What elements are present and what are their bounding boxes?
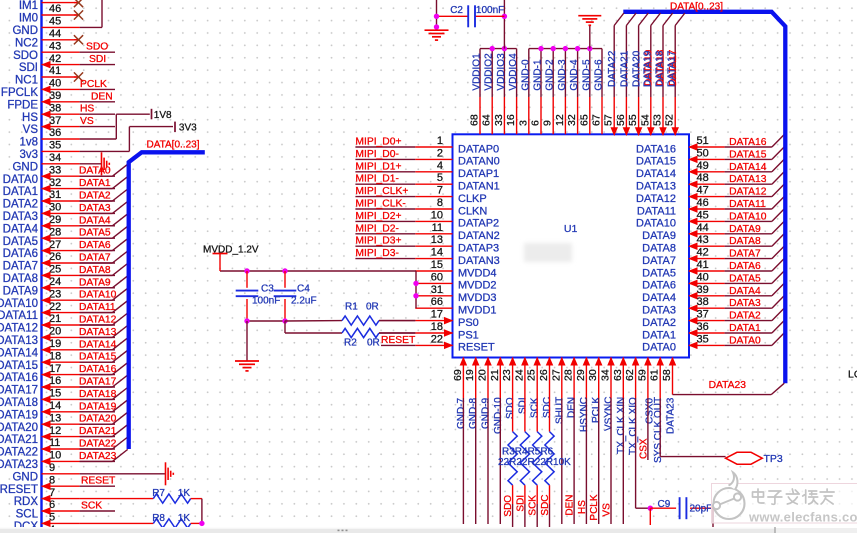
svg-text:0R: 0R	[367, 338, 380, 349]
svg-text:CLKN: CLKN	[458, 205, 487, 217]
svg-text:DATA7: DATA7	[3, 261, 38, 273]
svg-text:10: 10	[49, 450, 61, 462]
svg-text:SDC: SDC	[542, 397, 553, 418]
svg-text:37: 37	[697, 309, 709, 321]
svg-text:45: 45	[49, 16, 61, 28]
svg-text:24: 24	[49, 276, 61, 288]
svg-text:DATA8: DATA8	[642, 243, 676, 255]
svg-text:DATA4: DATA4	[729, 286, 761, 297]
svg-text:DATA0: DATA0	[3, 174, 38, 186]
svg-text:2: 2	[437, 147, 443, 159]
svg-text:DATA3: DATA3	[642, 305, 676, 317]
svg-text:12: 12	[554, 114, 566, 126]
svg-text:VSYNC: VSYNC	[604, 397, 615, 431]
svg-text:25: 25	[49, 264, 61, 276]
svg-text:MIPI_D0+: MIPI_D0+	[355, 137, 401, 148]
svg-text:SDC: SDC	[540, 494, 551, 515]
svg-text:1V8: 1V8	[154, 110, 172, 121]
svg-text:44: 44	[49, 28, 61, 40]
svg-text:5: 5	[437, 172, 443, 184]
svg-text:DATA19: DATA19	[0, 409, 38, 421]
svg-text:MVDD1: MVDD1	[458, 305, 497, 317]
svg-text:DATA12: DATA12	[0, 323, 38, 335]
svg-text:C4: C4	[297, 283, 310, 294]
svg-text:GND-6: GND-6	[594, 59, 605, 91]
svg-text:19: 19	[49, 338, 61, 350]
svg-text:20: 20	[477, 369, 489, 381]
svg-text:52: 52	[664, 114, 676, 126]
svg-text:DATA7: DATA7	[79, 253, 111, 264]
svg-text:DEN: DEN	[565, 494, 576, 515]
svg-text:GND-10: GND-10	[493, 397, 504, 434]
svg-text:www.elecfans.com: www.elecfans.com	[748, 510, 857, 525]
svg-text:VS: VS	[23, 124, 39, 136]
svg-text:4: 4	[437, 160, 443, 172]
svg-text:R8: R8	[152, 513, 165, 524]
svg-text:61: 61	[649, 369, 661, 381]
svg-text:DATA3: DATA3	[729, 298, 761, 309]
svg-text:3v3: 3v3	[19, 149, 38, 161]
svg-text:DATA0: DATA0	[79, 166, 111, 177]
svg-text:MIPI_CLK+: MIPI_CLK+	[355, 186, 408, 197]
svg-text:DATA10: DATA10	[79, 290, 117, 301]
svg-text:PS1: PS1	[458, 329, 479, 341]
svg-text:SCK: SCK	[81, 501, 102, 512]
svg-text:17: 17	[431, 309, 443, 321]
svg-text:DATA13: DATA13	[729, 174, 767, 185]
svg-text:VDDIO2: VDDIO2	[484, 53, 495, 91]
svg-text:MIPI_D3-: MIPI_D3-	[355, 248, 399, 259]
svg-text:6: 6	[530, 120, 542, 126]
svg-text:DEN: DEN	[91, 91, 113, 102]
svg-text:36: 36	[49, 127, 61, 139]
svg-text:GND-9: GND-9	[481, 397, 492, 429]
svg-text:DATA0: DATA0	[642, 342, 676, 354]
svg-text:VDDIO1: VDDIO1	[472, 53, 483, 91]
svg-text:DATA8: DATA8	[3, 273, 38, 285]
svg-text:43: 43	[49, 40, 61, 52]
svg-text:17: 17	[49, 363, 61, 375]
svg-text:PCLK: PCLK	[589, 494, 600, 520]
svg-text:GND-5: GND-5	[581, 59, 592, 91]
svg-text:26: 26	[49, 251, 61, 263]
svg-text:32: 32	[49, 177, 61, 189]
svg-text:DATA23: DATA23	[79, 451, 117, 462]
svg-text:DATA5: DATA5	[729, 273, 761, 284]
svg-text:DATA6: DATA6	[642, 280, 676, 292]
svg-text:DATAP2: DATAP2	[458, 218, 499, 230]
svg-text:DATAN0: DATAN0	[458, 156, 500, 168]
svg-text:DATA16: DATA16	[79, 364, 117, 375]
svg-text:DATA11: DATA11	[79, 302, 116, 313]
svg-text:SDO: SDO	[86, 42, 108, 53]
svg-text:21: 21	[49, 313, 61, 325]
svg-text:GND: GND	[12, 471, 38, 483]
svg-text:DATA21: DATA21	[79, 426, 117, 437]
svg-text:DATA23: DATA23	[0, 459, 38, 471]
svg-text:33: 33	[49, 164, 61, 176]
svg-text:HS: HS	[577, 500, 588, 514]
svg-text:9: 9	[542, 120, 554, 126]
svg-text:DATA6: DATA6	[3, 248, 38, 260]
svg-text:VS: VS	[80, 116, 94, 127]
svg-text:DATA3: DATA3	[79, 203, 111, 214]
svg-text:64: 64	[481, 114, 493, 126]
svg-text:100nF: 100nF	[476, 5, 504, 16]
svg-text:DATA2: DATA2	[642, 317, 676, 329]
svg-text:45: 45	[697, 209, 709, 221]
svg-text:62: 62	[624, 369, 636, 381]
svg-text:DATA8: DATA8	[79, 265, 111, 276]
svg-text:MIPI_D2-: MIPI_D2-	[355, 223, 399, 234]
svg-text:DATA20: DATA20	[79, 414, 117, 425]
svg-text:49: 49	[697, 160, 709, 172]
svg-text:56: 56	[615, 114, 627, 126]
svg-text:DATA4: DATA4	[3, 223, 39, 235]
svg-text:1K: 1K	[178, 488, 191, 499]
svg-text:28: 28	[49, 226, 61, 238]
svg-text:DATAP1: DATAP1	[458, 168, 499, 180]
svg-text:1: 1	[437, 135, 443, 147]
svg-text:SDI: SDI	[89, 54, 106, 65]
svg-text:DATA19: DATA19	[79, 401, 117, 412]
svg-text:DATA12: DATA12	[636, 193, 676, 205]
svg-text:47: 47	[697, 185, 709, 197]
svg-text:DATA20: DATA20	[0, 422, 38, 434]
svg-text:26: 26	[538, 369, 550, 381]
svg-text:DATA15: DATA15	[636, 156, 676, 168]
svg-text:HSYNC: HSYNC	[579, 397, 590, 432]
svg-text:30: 30	[587, 369, 599, 381]
svg-text:23: 23	[49, 288, 61, 300]
svg-text:R3R4R5R6: R3R4R5R6	[502, 446, 554, 457]
svg-text:7: 7	[437, 185, 443, 197]
svg-text:60: 60	[431, 271, 443, 283]
svg-text:1K: 1K	[178, 513, 191, 524]
svg-text:GND-7: GND-7	[456, 397, 467, 429]
svg-text:11: 11	[432, 222, 443, 234]
svg-text:34: 34	[600, 369, 612, 381]
svg-text:IM0: IM0	[19, 13, 38, 25]
svg-text:40: 40	[49, 78, 61, 90]
svg-text:DATA18: DATA18	[0, 397, 38, 409]
svg-text:69: 69	[452, 369, 464, 381]
svg-text:14: 14	[431, 247, 443, 259]
svg-text:DATA[0..23]: DATA[0..23]	[670, 2, 723, 13]
svg-text:SDI: SDI	[517, 397, 528, 414]
svg-text:16: 16	[505, 114, 517, 126]
svg-text:18: 18	[431, 321, 443, 333]
svg-text:DATA1: DATA1	[642, 329, 676, 341]
svg-text:DATA[0..23]: DATA[0..23]	[147, 140, 200, 151]
svg-text:PCLK: PCLK	[591, 397, 602, 423]
svg-text:DATA6: DATA6	[729, 261, 761, 272]
svg-text:1v8: 1v8	[19, 137, 38, 149]
svg-text:27: 27	[49, 239, 61, 251]
svg-text:DATA13: DATA13	[636, 181, 676, 193]
svg-text:MVDD2: MVDD2	[458, 280, 497, 292]
svg-text:SHUT: SHUT	[554, 397, 565, 424]
svg-text:31: 31	[431, 284, 443, 296]
svg-text:SCK: SCK	[528, 495, 539, 516]
svg-text:DATA2: DATA2	[79, 191, 111, 202]
svg-text:DATA11: DATA11	[0, 310, 38, 322]
svg-text:DATA14: DATA14	[636, 168, 676, 180]
svg-text:SDO: SDO	[13, 50, 38, 62]
svg-text:RDX: RDX	[14, 496, 39, 508]
svg-text:DATA14: DATA14	[79, 339, 117, 350]
svg-text:RESET: RESET	[0, 484, 38, 496]
svg-text:18: 18	[49, 350, 61, 362]
svg-text:39: 39	[49, 90, 61, 102]
svg-text:GND-3: GND-3	[557, 59, 568, 91]
svg-text:29: 29	[49, 214, 61, 226]
svg-text:DATA14: DATA14	[729, 162, 767, 173]
svg-text:12: 12	[49, 425, 61, 437]
svg-text:VDDIO4: VDDIO4	[508, 53, 519, 91]
svg-text:DATA11: DATA11	[637, 205, 676, 217]
svg-text:DATAP0: DATAP0	[458, 143, 499, 155]
svg-text:DATA15: DATA15	[79, 352, 117, 363]
svg-text:DATA21: DATA21	[619, 50, 630, 87]
svg-text:32: 32	[566, 114, 578, 126]
svg-text:SDI: SDI	[19, 62, 38, 74]
svg-text:R1: R1	[345, 302, 358, 313]
svg-text:GND-2: GND-2	[545, 59, 556, 91]
svg-text:27: 27	[550, 369, 562, 381]
svg-text:DATA21: DATA21	[0, 434, 38, 446]
svg-text:R2: R2	[344, 338, 357, 349]
svg-text:FPCLK: FPCLK	[1, 87, 38, 99]
svg-text:22: 22	[431, 333, 443, 345]
svg-text:DATA2: DATA2	[3, 199, 38, 211]
svg-text:DATA19: DATA19	[642, 50, 653, 87]
svg-text:31: 31	[49, 189, 61, 201]
svg-text:55: 55	[627, 114, 639, 126]
svg-text:DATA16: DATA16	[729, 137, 767, 148]
svg-text:HS: HS	[80, 104, 94, 115]
svg-text:MVDD_1.2V: MVDD_1.2V	[203, 245, 259, 256]
svg-text:23: 23	[501, 369, 513, 381]
svg-text:42: 42	[697, 247, 709, 259]
svg-text:36: 36	[697, 321, 709, 333]
svg-text:66: 66	[431, 296, 443, 308]
svg-text:C3: C3	[261, 283, 274, 294]
svg-text:40: 40	[697, 271, 709, 283]
svg-text:3: 3	[517, 120, 529, 126]
svg-text:30: 30	[49, 202, 61, 214]
svg-text:RESET: RESET	[81, 476, 116, 487]
svg-text:DATA7: DATA7	[642, 255, 676, 267]
svg-text:VDDIO3: VDDIO3	[496, 53, 507, 91]
svg-text:22: 22	[49, 301, 61, 313]
svg-text:58: 58	[661, 369, 673, 381]
svg-text:DATA9: DATA9	[79, 277, 111, 288]
svg-text:GND-1: GND-1	[533, 59, 544, 91]
svg-text:54: 54	[639, 114, 651, 126]
svg-text:DATA5: DATA5	[642, 267, 676, 279]
svg-text:13: 13	[49, 412, 61, 424]
svg-text:65: 65	[578, 114, 590, 126]
svg-text:DATA1: DATA1	[79, 178, 111, 189]
svg-text:43: 43	[697, 234, 709, 246]
svg-text:50: 50	[697, 147, 709, 159]
svg-text:MIPI_D1-: MIPI_D1-	[355, 174, 399, 185]
svg-text:DEN: DEN	[567, 397, 578, 418]
svg-text:RESET: RESET	[381, 335, 416, 346]
svg-text:DATA0: DATA0	[729, 335, 761, 346]
svg-text:SCL: SCL	[16, 509, 39, 521]
svg-text:MVDD4: MVDD4	[458, 267, 497, 279]
svg-text:22R22R22R10K: 22R22R22R10K	[498, 457, 571, 468]
svg-text:DATA6: DATA6	[79, 240, 111, 251]
svg-text:DATA4: DATA4	[79, 215, 111, 226]
svg-text:SDO: SDO	[503, 495, 514, 517]
svg-text:DATA5: DATA5	[3, 236, 38, 248]
svg-text:GND-0: GND-0	[520, 59, 531, 91]
svg-text:20: 20	[49, 326, 61, 338]
svg-text:15: 15	[49, 388, 61, 400]
svg-text:100nF: 100nF	[252, 295, 280, 306]
svg-text:GND: GND	[12, 161, 38, 173]
svg-text:39: 39	[697, 284, 709, 296]
svg-text:DATA14: DATA14	[0, 347, 39, 359]
svg-text:DATA9: DATA9	[3, 285, 38, 297]
svg-text:38: 38	[49, 102, 61, 114]
svg-text:51: 51	[697, 135, 709, 147]
svg-text:DATA1: DATA1	[729, 323, 761, 334]
svg-text:2.2uF: 2.2uF	[291, 295, 317, 306]
svg-text:SYS CLK OUT: SYS CLK OUT	[653, 397, 664, 463]
svg-text:DATA22: DATA22	[79, 439, 117, 450]
svg-text:DATA12: DATA12	[79, 315, 117, 326]
svg-text:TX_CLK XIN: TX_CLK XIN	[616, 397, 627, 454]
svg-text:68: 68	[469, 114, 481, 126]
svg-text:GND: GND	[12, 25, 38, 37]
svg-text:DATA8: DATA8	[729, 236, 761, 247]
svg-text:DATA16: DATA16	[0, 372, 38, 384]
svg-text:LO: LO	[848, 369, 857, 381]
svg-text:28: 28	[563, 369, 575, 381]
svg-text:48: 48	[697, 172, 709, 184]
svg-text:53: 53	[652, 114, 664, 126]
svg-text:46: 46	[697, 197, 709, 209]
svg-text:MIPI_D1+: MIPI_D1+	[355, 161, 401, 172]
svg-text:SCK: SCK	[530, 397, 541, 418]
svg-text:DATA3: DATA3	[3, 211, 38, 223]
svg-text:DATA13: DATA13	[79, 327, 117, 338]
svg-text:CLKP: CLKP	[458, 193, 487, 205]
svg-text:DATAN3: DATAN3	[458, 255, 500, 267]
svg-text:DATA4: DATA4	[642, 292, 676, 304]
svg-text:41: 41	[697, 259, 709, 271]
svg-text:RESET: RESET	[458, 342, 495, 354]
svg-text:10: 10	[431, 209, 443, 221]
svg-text:DATA10: DATA10	[636, 218, 676, 230]
svg-text:20pF: 20pF	[690, 503, 713, 514]
svg-text:DATA20: DATA20	[632, 50, 643, 87]
svg-text:C9: C9	[658, 499, 671, 510]
svg-text:33: 33	[493, 114, 505, 126]
svg-text:IM1: IM1	[19, 0, 38, 12]
svg-text:GND-8: GND-8	[468, 397, 479, 429]
svg-text:42: 42	[49, 53, 61, 65]
svg-text:MIPI_CLK-: MIPI_CLK-	[355, 199, 405, 210]
svg-text:59: 59	[636, 369, 648, 381]
svg-text:16: 16	[49, 375, 61, 387]
svg-text:DATA17: DATA17	[79, 377, 117, 388]
svg-text:DATA10: DATA10	[729, 211, 767, 222]
svg-text:63: 63	[612, 369, 624, 381]
svg-text:37: 37	[49, 115, 61, 127]
svg-text:35: 35	[49, 140, 61, 152]
svg-text:15: 15	[431, 259, 443, 271]
svg-text:41: 41	[49, 65, 61, 77]
svg-text:DATA5: DATA5	[79, 228, 111, 239]
svg-text:GND-4: GND-4	[569, 59, 580, 91]
svg-text:DATA15: DATA15	[0, 360, 38, 372]
svg-text:57: 57	[603, 114, 615, 126]
svg-text:DATA23: DATA23	[666, 397, 677, 434]
svg-text:DATAN2: DATAN2	[458, 230, 500, 242]
svg-text:DATA2: DATA2	[729, 311, 761, 322]
svg-text:11: 11	[49, 437, 60, 449]
svg-text:38: 38	[697, 296, 709, 308]
svg-text:3V3: 3V3	[179, 122, 197, 133]
svg-text:DATA13: DATA13	[0, 335, 38, 347]
svg-text:0R: 0R	[366, 302, 379, 313]
svg-text:34: 34	[49, 152, 61, 164]
svg-text:46: 46	[49, 3, 61, 15]
svg-text:24: 24	[513, 369, 525, 381]
svg-text:PS0: PS0	[458, 317, 479, 329]
svg-text:DATA12: DATA12	[729, 187, 767, 198]
svg-text:44: 44	[697, 222, 709, 234]
svg-text:DATA18: DATA18	[79, 389, 117, 400]
svg-text:C2: C2	[450, 5, 463, 16]
svg-text:DATA22: DATA22	[607, 50, 618, 87]
svg-text:DATA18: DATA18	[655, 50, 666, 87]
svg-text:DATA23: DATA23	[709, 380, 747, 391]
svg-text:19: 19	[464, 369, 476, 381]
svg-text:R7: R7	[152, 488, 165, 499]
svg-text:DATAP3: DATAP3	[458, 243, 499, 255]
svg-text:DATA17: DATA17	[0, 385, 38, 397]
svg-text:DATA9: DATA9	[642, 230, 676, 242]
svg-text:25: 25	[526, 369, 538, 381]
svg-text:DATA1: DATA1	[3, 186, 38, 198]
svg-text:NC1: NC1	[15, 75, 38, 87]
svg-text:21: 21	[489, 369, 501, 381]
svg-text:29: 29	[575, 369, 587, 381]
svg-text:14: 14	[49, 400, 61, 412]
svg-text:8: 8	[437, 197, 443, 209]
svg-text:DATAN1: DATAN1	[458, 181, 500, 193]
svg-text:DATA17: DATA17	[667, 50, 678, 87]
svg-text:VS: VS	[602, 503, 613, 517]
svg-text:MIPI_D2+: MIPI_D2+	[355, 211, 401, 222]
svg-text:U1: U1	[564, 223, 578, 235]
svg-text:DATA9: DATA9	[729, 224, 761, 235]
svg-text:DATA22: DATA22	[0, 447, 38, 459]
svg-text:TP3: TP3	[764, 453, 783, 465]
svg-text:35: 35	[697, 333, 709, 345]
svg-text:DATA7: DATA7	[729, 249, 761, 260]
svg-text:SDI: SDI	[515, 495, 526, 512]
svg-text:MIPI_D3+: MIPI_D3+	[355, 236, 401, 247]
svg-text:DATA15: DATA15	[729, 149, 767, 160]
svg-text:DATA11: DATA11	[729, 199, 766, 210]
